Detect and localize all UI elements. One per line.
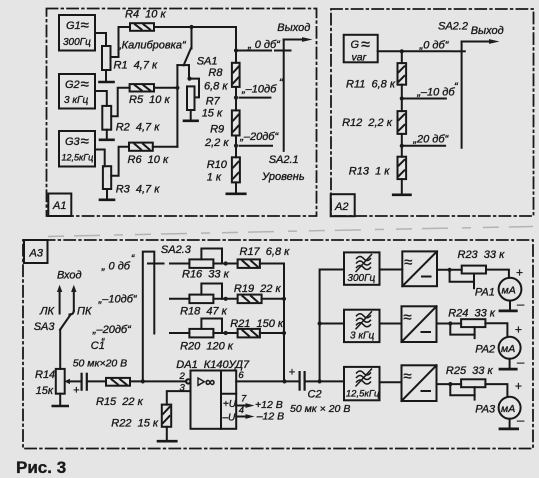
svg-text:R21 150 к: R21 150 к: [230, 318, 284, 330]
capacitor C1: [73, 337, 127, 397]
resistor R17: [238, 246, 291, 268]
resistor R25 trimmer: [446, 365, 494, 400]
pin 2 inverting input circle: [179, 371, 191, 384]
svg-text:SA3: SA3: [34, 321, 56, 333]
switch SA3: [34, 315, 71, 334]
wire R13 to ground: [401, 179, 403, 194]
resistor R16 trimmer: [182, 249, 230, 281]
meter PA3: [475, 379, 522, 419]
svg-text:R8: R8: [208, 67, 223, 79]
svg-text:R20 120 к: R20 120 к: [180, 341, 234, 353]
wire R1 to ground: [105, 70, 107, 81]
switch SA2.2 rail: [438, 21, 468, 148]
resistor R13: [349, 157, 406, 179]
wire R24 to meter PA2: [485, 323, 507, 337]
wire node to R8 chain: [192, 27, 237, 63]
wire R21 to feedback bus: [260, 332, 284, 334]
block A1 border: [47, 9, 317, 217]
wire -20dB tap to R20: [170, 332, 189, 334]
ground R14: [53, 405, 68, 408]
wire rectifier1 to R23: [437, 269, 462, 271]
ground R3: [100, 199, 114, 202]
svg-text:мА: мА: [501, 403, 515, 415]
resistor R24 trimmer: [448, 308, 496, 339]
svg-text:„–10 дб: „–10 дб: [416, 87, 455, 99]
ground R1: [100, 81, 114, 84]
svg-text:„Калибровка“: „Калибровка“: [117, 40, 187, 52]
input arrow LK: [39, 285, 62, 318]
svg-text:PA2: PA2: [475, 344, 495, 356]
switch SA2.3 pole rail: [143, 244, 192, 381]
svg-text:Уровень: Уровень: [261, 171, 305, 183]
svg-text:R1 4,7 к: R1 4,7 к: [114, 60, 159, 72]
wire G to node: [378, 50, 402, 52]
generator G2 3kHz: [59, 74, 95, 109]
wire R10 to ground: [235, 182, 237, 192]
svg-text:R18 47 к: R18 47 к: [180, 306, 228, 318]
ground PA3: [500, 413, 525, 429]
svg-text:50 мк×20 В: 50 мк×20 В: [73, 358, 127, 370]
node -20dB tap A2: [400, 144, 404, 148]
resistor R2: [102, 106, 160, 134]
output arrow A2: [462, 25, 504, 44]
node rectifier3 out: [448, 382, 452, 386]
node R19 bus junction: [282, 297, 286, 301]
wire SA1 bus down to R5 R6: [176, 65, 178, 147]
wire R23 to meter PA1: [486, 270, 509, 278]
svg-text:G: G: [351, 39, 360, 51]
resistor R23 trimmer: [450, 249, 505, 288]
svg-text:R24 33 к: R24 33 к: [448, 308, 496, 320]
svg-text:≈: ≈: [403, 309, 411, 326]
node 0dB tap A1: [234, 48, 238, 52]
wire PA2 to ground: [509, 359, 511, 368]
svg-text:2: 2: [179, 371, 186, 382]
op-amp DA1 K140UD7: [176, 359, 250, 429]
scan artifact ghost line: [48, 227, 533, 237]
block A3 border: [23, 240, 533, 449]
wire G1 to R1: [95, 33, 106, 46]
wire feedback bus: [283, 264, 285, 382]
svg-text:12,5кГц: 12,5кГц: [346, 389, 380, 400]
pin 7 arrow +12V: [236, 394, 283, 411]
wire node to R11: [401, 51, 403, 63]
svg-text:Рис. 3: Рис. 3: [16, 458, 66, 477]
resistor R4: [125, 9, 166, 31]
resistor R9: [204, 110, 240, 149]
resistor R19: [234, 283, 282, 303]
ground R13: [393, 194, 410, 197]
ground R7: [184, 120, 198, 123]
svg-text:Выход: Выход: [471, 25, 504, 37]
pin 3 wire: [167, 383, 191, 405]
wire C2 to filter bus: [306, 380, 344, 382]
node R16 R17 junction: [224, 261, 228, 265]
wire R14 to ground: [59, 394, 61, 405]
wire R3 to ground: [106, 189, 108, 199]
resistor R11: [346, 63, 406, 90]
svg-text:R9: R9: [210, 124, 224, 136]
node R21 bus junction: [282, 331, 286, 335]
svg-text:R4 10 к: R4 10 к: [125, 9, 166, 21]
ground PA1: [500, 297, 525, 312]
wire rectifier3 to R25: [437, 383, 462, 385]
wire R2 to ground: [106, 130, 108, 139]
rectifier U3: [402, 365, 437, 401]
svg-text:„–10дб: „–10дб: [241, 84, 277, 96]
svg-text:R6 10 к: R6 10 к: [128, 154, 169, 166]
svg-text:R5 10 к: R5 10 к: [129, 94, 170, 106]
wire R5 to SA1 bus: [154, 87, 177, 89]
wire R19 to feedback bus: [262, 298, 284, 300]
filter Z1 300Hz: [344, 252, 380, 284]
node R5 bus junction: [175, 86, 179, 90]
node R20 R21 junction: [224, 331, 228, 335]
switch SA1: [177, 27, 217, 68]
svg-text:≈: ≈: [404, 254, 412, 271]
svg-text:–U: –U: [222, 413, 237, 424]
potentiometer R14: [35, 369, 65, 397]
wire -20dB tap A2: [402, 134, 450, 146]
svg-text:R3 4,7 к: R3 4,7 к: [116, 184, 161, 196]
meter PA1: [475, 266, 523, 301]
svg-text:3: 3: [180, 383, 186, 394]
svg-text:Вход: Вход: [57, 270, 82, 282]
wire -10dB tap: [240, 77, 284, 98]
svg-text:SA1: SA1: [197, 56, 218, 68]
svg-text:–: –: [516, 297, 525, 312]
svg-text:R15 22 к: R15 22 к: [96, 396, 144, 408]
node R4/SA1 junction: [189, 25, 193, 29]
node summing junction: [141, 379, 145, 383]
wire R8 to R9: [235, 87, 237, 111]
node rectifier1 out: [448, 268, 452, 272]
svg-text:A1: A1: [52, 200, 66, 212]
svg-text:SA2.3: SA2.3: [161, 244, 192, 256]
svg-text:R7: R7: [206, 96, 221, 108]
svg-text:R16 33 к: R16 33 к: [182, 269, 230, 281]
svg-text:+U: +U: [223, 399, 237, 410]
wire 0dB tap: [236, 39, 281, 51]
svg-text:∞: ∞: [205, 373, 215, 389]
svg-text:1 к: 1 к: [207, 172, 222, 184]
svg-text:мА: мА: [502, 285, 516, 297]
svg-text:Выход: Выход: [277, 22, 310, 34]
node filter bus bottom: [318, 379, 322, 383]
wire C1 to R15: [88, 380, 106, 382]
resistor R7 trimmer: [187, 86, 223, 119]
wire G2 to R2: [95, 91, 107, 106]
svg-text:мА: мА: [501, 343, 515, 355]
svg-text:≈: ≈: [81, 133, 89, 150]
wire 0dB tap to R16 closed contact: [148, 263, 189, 265]
resistor R10: [207, 157, 240, 183]
wire R3 tap to R6: [111, 147, 129, 176]
wire bus to 3kHz filter: [320, 323, 344, 325]
wire R7 to ground: [190, 110, 192, 120]
svg-text:R2 4,7 к: R2 4,7 к: [116, 122, 161, 134]
svg-text:15 к: 15 к: [202, 108, 223, 120]
wire R17 to feedback bus: [260, 263, 284, 265]
svg-text:4: 4: [239, 405, 244, 416]
filter Z3 12.5kHz: [344, 367, 380, 400]
svg-text:G2: G2: [65, 79, 80, 91]
resistor R18 trimmer: [180, 284, 228, 318]
svg-text:15к: 15к: [36, 385, 54, 397]
svg-text:–: –: [516, 355, 525, 370]
ground PA2: [500, 355, 525, 370]
svg-text:≈: ≈: [81, 17, 89, 34]
block label A1: [48, 194, 71, 217]
svg-text:+: +: [73, 385, 80, 397]
node -20dB tap A1: [234, 144, 238, 148]
svg-text:„0 дб“: „0 дб“: [419, 40, 450, 52]
node R7 top: [187, 77, 191, 81]
svg-text:R10: R10: [207, 159, 228, 171]
wire R7 wiper loop: [190, 79, 199, 98]
svg-text:+12 В: +12 В: [255, 399, 283, 411]
ground R22: [158, 440, 176, 443]
rectifier U1: [402, 251, 437, 286]
wire filter3 to rectifier3: [380, 381, 402, 383]
wire R25 to meter PA3: [485, 384, 507, 397]
svg-text:+: +: [515, 323, 522, 337]
svg-text:R11 6,8 к: R11 6,8 к: [346, 79, 396, 91]
svg-text:R23 33 к: R23 33 к: [458, 249, 506, 261]
svg-text:var: var: [352, 52, 367, 64]
pin 4 arrow -12V: [236, 405, 284, 422]
capacitor C2: [289, 367, 351, 416]
svg-text:„–20дб“: „–20дб“: [92, 324, 132, 336]
svg-text:+: +: [516, 266, 523, 280]
svg-text:С2: С2: [308, 389, 322, 401]
wire R11 to R12: [401, 85, 403, 111]
svg-text:+: +: [515, 379, 522, 393]
resistor R20 trimmer: [180, 319, 234, 353]
pin 6 wire to C2: [236, 370, 298, 382]
wire -20dB tap: [239, 131, 279, 146]
svg-text:A2: A2: [334, 201, 348, 213]
generator G3 12.5kHz: [59, 131, 95, 167]
svg-text:R22 15 к: R22 15 к: [111, 418, 159, 430]
svg-text:A3: A3: [29, 248, 44, 260]
svg-text:„ 0 дб“: „ 0 дб“: [247, 39, 281, 51]
wire SA3 to R14: [59, 330, 61, 369]
svg-text:SA2.1: SA2.1: [269, 154, 299, 166]
meter PA2: [475, 323, 522, 359]
node G output: [400, 49, 404, 53]
resistor R12: [342, 111, 406, 134]
wire filter2 to rectifier2: [380, 323, 402, 325]
input arrow PK: [70, 285, 92, 318]
svg-text:3 кГц: 3 кГц: [350, 330, 375, 341]
wire R22 to ground: [166, 427, 168, 440]
svg-text:G1: G1: [66, 20, 81, 32]
svg-text:R17 6,8 к: R17 6,8 к: [240, 246, 291, 258]
ground R2: [100, 139, 114, 142]
wire R4 to node: [154, 26, 192, 28]
svg-text:„ 0 дб: „ 0 дб: [101, 261, 131, 273]
svg-text:50 мк × 20 В: 50 мк × 20 В: [290, 403, 350, 415]
node rectifier2 out: [448, 321, 452, 325]
generator G var: [344, 35, 378, 64]
wire filter1 to rectifier1: [380, 269, 403, 271]
wire R16 to R17: [213, 263, 237, 265]
wire rectifier2 to R24: [437, 323, 462, 325]
svg-text:„–10дб“: „–10дб“: [98, 294, 138, 306]
wire R1 tap to R4: [111, 27, 131, 57]
svg-text:2,2 к: 2,2 к: [204, 137, 229, 149]
wire -10dB tap A2: [402, 81, 459, 99]
block A2 border: [331, 9, 534, 216]
node op-amp output: [282, 379, 286, 383]
svg-text:6: 6: [238, 370, 244, 381]
wire R18 to R19: [213, 298, 237, 300]
wire PA1 to ground: [509, 301, 511, 310]
wire SA1 right leg to R7: [188, 65, 190, 79]
resistor R15: [96, 378, 144, 408]
svg-text:7: 7: [241, 394, 247, 405]
svg-text:300Гц: 300Гц: [63, 37, 91, 48]
svg-text:R19 22 к: R19 22 к: [234, 283, 282, 295]
svg-text:+: +: [289, 367, 296, 379]
wire -10dB tap to R18: [170, 298, 189, 300]
wire G3 to R3: [95, 150, 105, 167]
svg-text:SA2.2: SA2.2: [438, 21, 468, 33]
svg-text:ПК: ПК: [77, 306, 92, 318]
ground R10: [227, 193, 246, 196]
svg-text:12,5кГц: 12,5кГц: [62, 153, 94, 163]
wire R2 tap to R5: [111, 88, 129, 117]
svg-text:–: –: [516, 413, 525, 428]
svg-text:≈: ≈: [403, 368, 411, 385]
generator G1 300Hz: [59, 15, 95, 51]
filter Z2 3kHz: [344, 310, 380, 342]
svg-text:„–20дб“: „–20дб“: [239, 131, 279, 143]
rectifier U2: [402, 306, 437, 342]
resistor R22: [111, 405, 171, 430]
wire filter bus vertical: [320, 270, 344, 382]
block label A3: [24, 240, 48, 263]
node filter bus 3kHz: [318, 321, 322, 325]
wire R12 to R13: [401, 134, 403, 157]
resistor R3: [103, 166, 160, 195]
svg-text:R25 33 к: R25 33 к: [446, 365, 494, 377]
resistor R21: [230, 318, 284, 337]
svg-text:ЛК: ЛК: [39, 306, 55, 318]
svg-text:R14: R14: [35, 369, 55, 381]
switch SA2.1 rail: [261, 40, 305, 184]
node -10dB tap A1: [234, 96, 238, 100]
output arrow A1: [277, 22, 312, 42]
svg-text:R12 2,2 к: R12 2,2 к: [342, 117, 393, 129]
block label A2: [331, 194, 355, 216]
svg-text:„20 дб“: „20 дб“: [412, 134, 449, 146]
wire R6 to SA1 bus: [153, 146, 178, 148]
svg-text:–12 В: –12 В: [256, 410, 284, 422]
R14 wiper arrow to C1: [64, 379, 80, 384]
wire R15 to DA1 pin2: [130, 380, 186, 382]
svg-text:3 кГц: 3 кГц: [64, 95, 89, 106]
svg-text:PA3: PA3: [475, 404, 496, 416]
svg-text:R13 1 к: R13 1 к: [349, 166, 390, 178]
wire PA3 to ground: [509, 419, 511, 428]
node -10dB tap A2: [400, 96, 404, 100]
svg-text:≈: ≈: [81, 76, 89, 93]
resistor R8: [204, 63, 240, 93]
svg-text:PA1: PA1: [475, 287, 495, 299]
svg-text:G3: G3: [65, 136, 81, 148]
resistor R6: [128, 143, 169, 166]
svg-text:300Гц: 300Гц: [347, 273, 375, 284]
resistor R1: [102, 46, 158, 72]
node R18 R19 junction: [224, 297, 228, 301]
wire R9 to R10: [235, 136, 237, 158]
wire 0dB tap A2: [402, 40, 451, 52]
svg-text:6,8 к: 6,8 к: [204, 81, 228, 93]
resistor R5: [129, 84, 170, 106]
wire R20 to R21: [213, 332, 237, 334]
